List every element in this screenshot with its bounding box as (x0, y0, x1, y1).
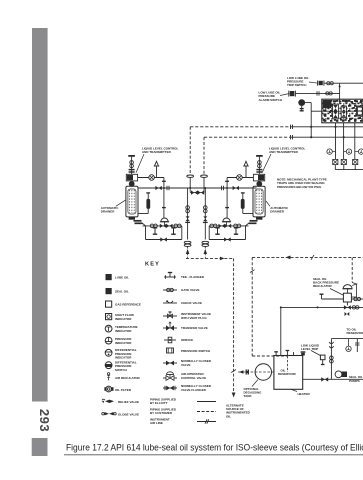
wire right drop x331.4 (330, 339, 332, 380)
wire main header y188 (138, 187, 257, 189)
wire dashed drop from line 2 (203, 137, 205, 174)
loop bottom bowtie (160, 237, 167, 241)
svg-text:WITH VENT PLUG: WITH VENT PLUG (181, 316, 207, 320)
wire console feed y111 (311, 110, 322, 112)
vent triangle right (244, 161, 248, 166)
transfer valve symbol (163, 327, 177, 329)
wire alarm line y93.4 (295, 92, 339, 94)
liquid level control label right (269, 146, 305, 154)
wire vessel drain to loop (143, 223, 146, 226)
loop bottom line (146, 239, 182, 241)
svg-text:ORIFICE: ORIFICE (181, 338, 193, 342)
pointer wire (136, 154, 144, 173)
oil filter symbol (106, 386, 112, 392)
cross tick on drop (231, 370, 236, 373)
wire top line y83 (324, 82, 363, 84)
gauge TI 1 (327, 149, 332, 154)
wire column (204, 188, 206, 240)
normally closed valve symbol (163, 362, 177, 364)
ellipse flange on drop 2 (201, 175, 208, 177)
svg-text:RESERVOIR: RESERVOIR (278, 372, 296, 376)
KEY left column (102, 274, 141, 416)
reservoir label (278, 369, 296, 377)
gas reference swatch (106, 301, 112, 307)
wire drop 1 (335, 123, 337, 159)
oil reservoir T1 (274, 356, 303, 390)
differential pressure indicator symbol (105, 349, 112, 356)
check valves on drop (329, 342, 333, 344)
pointer wire (311, 351, 320, 356)
wire dashed elbow to reservoir (252, 355, 287, 357)
transfer valve circle-X (149, 175, 155, 181)
pointer wire (252, 380, 258, 387)
seal oil back pressure regulator label (313, 277, 339, 288)
svg-text:AIR REGULATOR: AIR REGULATOR (115, 376, 141, 380)
node dot (339, 86, 341, 88)
svg-text:INDICATOR: INDICATOR (115, 355, 132, 359)
alarm gauge filled circle (298, 99, 305, 106)
wire dome to loop (163, 222, 165, 226)
console speckle (323, 100, 362, 121)
transfer bowties under header (190, 192, 204, 194)
svg-text:CONTROL VALVE: CONTROL VALVE (181, 376, 206, 380)
gauge stem flange (300, 108, 304, 110)
optional degassing tank label (244, 387, 263, 398)
console pump valve 1 (333, 104, 339, 119)
wire gauge to node (305, 102, 311, 104)
check valve symbol (163, 302, 177, 304)
wire oil return top y338.6 (331, 338, 363, 340)
wire vent stem right (245, 166, 247, 178)
svg-text:VALVE FLANGED: VALVE FLANGED (181, 388, 207, 392)
KEY right column (150, 273, 216, 426)
top plug (128, 155, 135, 157)
svg-text:PUMPS: PUMPS (349, 379, 360, 383)
pointer wire to trip switch (309, 82, 318, 83)
seal pot dark circle (129, 181, 135, 187)
svg-text:GLOBE VALVE: GLOBE VALVE (118, 412, 139, 416)
svg-text:DRAINER: DRAINER (101, 210, 116, 214)
svg-text:KEY: KEY (145, 262, 160, 268)
svg-text:AND TRANSMITTER: AND TRANSMITTER (269, 150, 299, 154)
vessel hatch (130, 190, 135, 213)
reservoir top right fitting (301, 353, 305, 356)
transfer pump symbol (335, 371, 342, 378)
console dark blob (323, 100, 332, 108)
svg-text:OIL: OIL (226, 414, 231, 418)
closed valve (203, 216, 207, 221)
closed valve (186, 216, 190, 221)
wire alternate-source drop x233.6 (233, 258, 235, 395)
svg-text:REGULATOR: REGULATOR (313, 284, 333, 288)
caption rule (64, 454, 363, 456)
automatic drainer label right (270, 206, 289, 214)
header bowtie valve right (233, 186, 239, 190)
cross tick on drop (250, 270, 255, 273)
node dot (280, 306, 282, 308)
low lube oil pressure alarm switch label (259, 91, 283, 102)
pointer wire (291, 389, 297, 391)
svg-text:BY ELLIOTT: BY ELLIOTT (150, 401, 168, 405)
wire stack stem (131, 157, 133, 175)
pump inlet flange (245, 369, 247, 374)
wire long supply line 2 solid part (291, 136, 363, 138)
wire drop 3 (354, 123, 356, 159)
svg-text:TRIP SWITCH: TRIP SWITCH (287, 83, 306, 87)
tee flanged symbol (164, 273, 176, 279)
gate valve on return (352, 306, 355, 309)
gauge TI 2 (346, 149, 351, 154)
low liquid level trip label (301, 344, 320, 352)
wire dashed drop x252.2 (251, 257, 253, 356)
console drops to gauges (336, 123, 355, 159)
ellipse flange on drop 1 (187, 175, 194, 177)
regulator outlet stem (346, 302, 348, 305)
svg-text:INDICATOR: INDICATOR (115, 341, 132, 345)
drain gate valve circles 2 (174, 224, 178, 228)
wire lower drain line (143, 225, 182, 227)
console frame (322, 99, 363, 123)
wire pump suction line y379.3 (303, 378, 363, 380)
flange pair on line 1 (291, 125, 293, 129)
svg-text:Figure 17.2 API 614 lube-seal: Figure 17.2 API 614 lube-seal oil sysste… (66, 443, 363, 453)
wire dashed drop from line 1 (189, 127, 191, 175)
wire dashed regulator signal drop (351, 257, 353, 282)
svg-text:INDICATOR: INDICATOR (115, 317, 132, 321)
svg-text:VALVE: VALVE (181, 363, 191, 367)
svg-text:SEAL OIL: SEAL OIL (115, 290, 129, 294)
seal oil swatch (106, 288, 112, 294)
svg-text:TANK: TANK (244, 394, 253, 398)
air operated control valve symbol (167, 372, 174, 375)
wire instrument air header dashed y258.4 (186, 257, 234, 259)
wire side riser x163.9 (163, 178, 165, 218)
orifice symbol (164, 339, 176, 341)
wire dashed through pump (238, 371, 274, 373)
drain transfer bowties (160, 224, 167, 228)
wire drop 2 (343, 123, 345, 159)
pressure indicator symbol (105, 337, 112, 344)
console element B (357, 106, 363, 116)
loop ibeam 2 (171, 228, 175, 234)
wire riser x339.6 (339, 83, 341, 99)
drain gate valve circles (150, 224, 154, 228)
ellipse flange bottom (202, 241, 209, 243)
strainer tick below (345, 312, 350, 316)
wire gauge bus (335, 169, 363, 171)
ellipse flange bottom (184, 241, 191, 243)
flange bar (185, 221, 190, 223)
bottom flange bars (134, 220, 142, 222)
wire riser to reservoir x280.8 (280, 307, 282, 355)
header bowtie valve left (155, 186, 161, 190)
svg-text:TEE - FLANGED: TEE - FLANGED (181, 275, 205, 279)
svg-text:RESERVOIR: RESERVOIR (347, 331, 363, 335)
to oil reservoir label (347, 327, 363, 335)
second drop x357.3 (356, 339, 358, 352)
wire column (187, 188, 189, 240)
side flag (352, 283, 356, 286)
wire instrument air line dashed y257.4 (252, 256, 363, 258)
gate valve on top line (327, 82, 334, 85)
svg-text:LUBE OIL: LUBE OIL (115, 276, 129, 280)
sidebar tab bar (32, 28, 48, 402)
pressure switch box 2 (341, 159, 346, 164)
center column right x205.3 (202, 188, 209, 259)
air regulator symbol (107, 375, 111, 378)
svg-text:GATE VALVE: GATE VALVE (181, 288, 200, 292)
console pump valve 2 (341, 106, 346, 117)
globe valve symbol (105, 412, 114, 415)
flange pair on line 2 (291, 135, 293, 139)
flange pair on alarm line (317, 91, 319, 95)
level control box (126, 174, 137, 181)
gate valve stacked on drop (330, 356, 334, 360)
instrument valve with vent plug symbol (163, 315, 177, 317)
trip switch valve (319, 81, 323, 85)
pointer wire (262, 154, 271, 173)
wire long supply line 1 dashed part (190, 126, 291, 128)
svg-text:INDICATOR: INDICATOR (115, 329, 132, 333)
loop left leg (145, 226, 147, 240)
stack flange bars (129, 169, 135, 171)
svg-text:293: 293 (37, 409, 52, 432)
pointer wire (116, 200, 126, 207)
alarm switch valve (290, 91, 295, 96)
stem (347, 289, 349, 293)
normally closed valve flanged symbol (163, 387, 177, 389)
differential pressure switch symbol (105, 362, 112, 369)
svg-text:PRESSURE SWITCH: PRESSURE SWITCH (181, 349, 210, 353)
wire long supply line 2 dashed part (204, 136, 291, 138)
svg-text:PRESSURES BELOW 500 PSIG: PRESSURES BELOW 500 PSIG (277, 185, 322, 189)
degassing pump P1 (255, 364, 271, 380)
wire stubs below boxes (335, 165, 355, 170)
wire long supply line 1 solid part (291, 126, 363, 128)
center column left x187.6 (184, 188, 191, 259)
svg-text:AND TRANSMITTER: AND TRANSMITTER (142, 150, 172, 154)
arrow left on instrument line (286, 256, 291, 260)
pressure switch symbol (167, 348, 174, 353)
pressure switch box 3 (353, 159, 358, 164)
vessel bottom fitting (129, 217, 135, 220)
temperature indicator symbol (105, 325, 112, 332)
level line to transfer valve (138, 177, 164, 179)
gate valve stacked (204, 206, 208, 210)
relief valve symbol (102, 400, 115, 403)
cross tick (311, 255, 314, 260)
console internal line (322, 110, 363, 112)
svg-text:RELIEF VALVE: RELIEF VALVE (118, 400, 139, 404)
flange bar (203, 221, 208, 223)
header flange pair right (222, 186, 224, 190)
svg-text:TRANSFER VALVE: TRANSFER VALVE (181, 326, 208, 330)
riser flange ticks (162, 180, 166, 182)
sidebar small square (32, 438, 48, 456)
lube oil swatch (106, 274, 112, 280)
actuator dome (343, 285, 352, 289)
svg-text:LEVEL TRIP: LEVEL TRIP (301, 347, 318, 351)
vent triangle left (155, 161, 159, 166)
bowtie on return (344, 305, 351, 309)
svg-text:AIR LINE: AIR LINE (150, 421, 163, 425)
svg-text:DRAINER: DRAINER (270, 210, 285, 214)
gauge TI 3 (359, 149, 363, 154)
liquid level control label left (142, 146, 178, 154)
pointer wire (330, 289, 343, 296)
sight glass top tee (146, 192, 150, 194)
wire drop 2 to header (203, 177, 205, 187)
note label (277, 178, 327, 189)
wire level switch stem (322, 360, 324, 365)
automatic drainer label left (101, 206, 120, 214)
wire sight glass elbow to vessel (138, 213, 148, 215)
sight flow indicator symbol (106, 314, 112, 320)
seal oil from label (349, 375, 363, 383)
svg-text:SWITCH: SWITCH (115, 368, 127, 372)
pointer wire (266, 201, 270, 206)
svg-text:ALARM SWITCH: ALARM SWITCH (259, 98, 283, 102)
wire drop 1 to header (189, 177, 191, 187)
wire gauge stem (301, 106, 303, 111)
gate valve on outlet (354, 297, 357, 300)
wire vent stem left (156, 166, 158, 178)
gauge on drop (346, 346, 351, 351)
wire sight glass column (147, 193, 149, 214)
flow arrows left (239, 370, 243, 374)
body (343, 293, 351, 302)
reservoir top fittings (275, 352, 277, 356)
alternate source of instrumented oil label (226, 404, 251, 419)
header flange pair left (167, 186, 169, 190)
svg-text:BY CUSTOMER: BY CUSTOMER (150, 411, 173, 415)
wire drop x311.2 (310, 103, 312, 138)
gate valve symbol (163, 289, 177, 291)
node dots line 1 (310, 126, 312, 128)
bowtie on suction (321, 377, 328, 381)
vent tee (321, 294, 323, 299)
node dots line 2 (310, 136, 312, 138)
wire seal oil return y307.4 (281, 306, 363, 308)
loop ibeam 1 (153, 228, 157, 234)
stack gate valve circles (130, 161, 134, 165)
svg-text:HEATER: HEATER (298, 392, 311, 396)
drain trap dome (161, 218, 168, 222)
sight glass body (146, 199, 150, 209)
header junction dots (163, 187, 165, 189)
oil console unit (322, 99, 363, 123)
gate valve stacked (186, 206, 190, 210)
level switch square (320, 355, 325, 360)
gate valve on alarm line (326, 92, 333, 95)
loop right leg (181, 226, 183, 240)
svg-text:CHECK VALVE: CHECK VALVE (181, 301, 202, 305)
svg-text:GAS REFERENCE: GAS REFERENCE (115, 303, 141, 307)
low lube oil pressure trip switch label (287, 76, 309, 87)
arrow right on instrument header (220, 257, 225, 261)
svg-text:OIL FILTER: OIL FILTER (115, 388, 132, 392)
up arrow to instrument line (187, 247, 189, 259)
wire regulator outlet y299 (322, 298, 344, 300)
back pressure regulator U1 (342, 283, 356, 303)
down arrow at end (232, 393, 236, 398)
drainer vessel (126, 186, 138, 217)
pressure switch box 1 (333, 159, 338, 164)
pointer wire to alarm switch (280, 94, 290, 96)
wire dashed inside reservoir (286, 356, 288, 372)
up arrow to instrument line (204, 247, 206, 259)
console inlet riser continuation (339, 99, 341, 104)
